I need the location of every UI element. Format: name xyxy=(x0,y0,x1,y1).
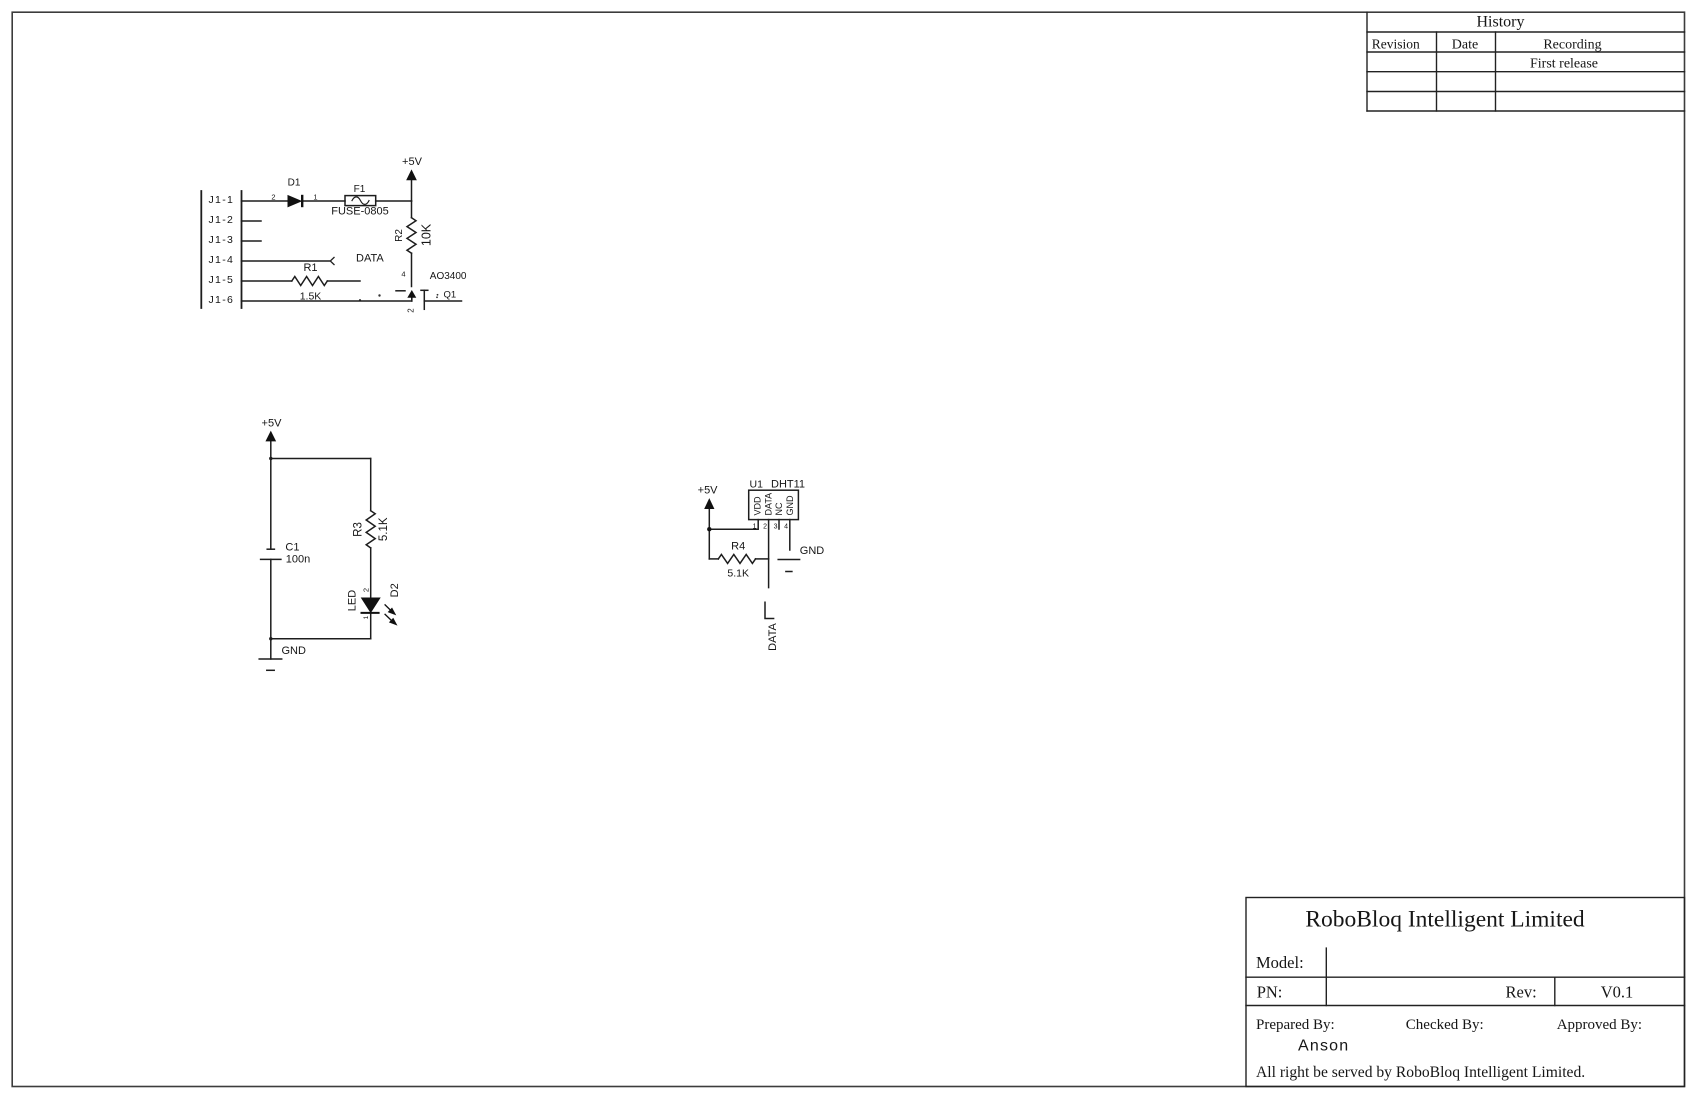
svg-text:J1-6: J1-6 xyxy=(209,294,235,306)
resistor R4 body xyxy=(718,554,755,563)
wire pin4 GND xyxy=(789,520,791,550)
wire J1-2 stub xyxy=(242,220,262,222)
title block outline xyxy=(1246,898,1685,1087)
wire J1-5 to R1 xyxy=(242,280,292,282)
svg-text:5.1K: 5.1K xyxy=(378,517,390,541)
wire J1-3 stub xyxy=(242,240,262,242)
wire LED to bottom rail xyxy=(370,613,372,639)
svg-text:F1: F1 xyxy=(354,184,366,195)
svg-text:10K: 10K xyxy=(420,223,434,246)
LED D2 triangle xyxy=(362,598,380,612)
ground bar (DHT11) xyxy=(778,559,799,561)
wire left rail to C1 xyxy=(270,459,272,550)
wire +5V stem xyxy=(411,180,413,202)
wire J1-6 to Q1 source xyxy=(242,297,412,301)
transistor Q1 source stem xyxy=(411,297,413,302)
svg-text:U1: U1 xyxy=(750,479,764,491)
svg-text:+5V: +5V xyxy=(698,485,719,497)
svg-text:D1: D1 xyxy=(288,178,301,189)
svg-text:4: 4 xyxy=(401,270,405,279)
svg-text:Revision: Revision xyxy=(1372,37,1420,52)
svg-text:+5V: +5V xyxy=(262,418,283,430)
designator marks before Q1 xyxy=(437,294,439,296)
transistor Q1 gate bar cap xyxy=(421,289,428,291)
svg-text:R4: R4 xyxy=(731,541,745,553)
svg-text:Model:: Model: xyxy=(1256,953,1304,972)
wire top rail xyxy=(271,458,371,460)
svg-text:2: 2 xyxy=(361,588,370,592)
transistor Q1 channel arrow xyxy=(408,291,416,298)
svg-text:DHT11: DHT11 xyxy=(771,479,805,491)
diode D1 triangle xyxy=(288,196,301,207)
svg-text:Prepared By:: Prepared By: xyxy=(1256,1017,1335,1033)
svg-text:Anson: Anson xyxy=(1298,1038,1349,1055)
svg-text:100n: 100n xyxy=(286,553,310,565)
wire C1 to bottom rail xyxy=(270,559,272,638)
power +5V arrow (DHT11) xyxy=(705,499,714,509)
fuse F1 element xyxy=(352,197,369,205)
svg-text:D2: D2 xyxy=(389,583,401,597)
port bracket DATA (DHT11) xyxy=(765,602,774,618)
power +5V arrow (J1 rail) xyxy=(407,170,416,180)
resistor R3 body xyxy=(366,511,375,548)
wire diode to fuse xyxy=(303,200,345,202)
svg-text:2: 2 xyxy=(407,308,416,313)
svg-text:1: 1 xyxy=(363,615,370,619)
svg-text:J1-4: J1-4 xyxy=(209,254,235,266)
wire R1 right xyxy=(327,280,360,282)
LED D2 light arrow 2 xyxy=(385,614,393,622)
svg-text:Recording: Recording xyxy=(1543,38,1601,53)
svg-text:V0.1: V0.1 xyxy=(1601,983,1634,1002)
wire R2 to Q1 drain xyxy=(411,253,413,286)
ground dash (DHT11) xyxy=(786,571,792,573)
svg-text:+5V: +5V xyxy=(402,156,423,168)
connector J1 left bar xyxy=(200,191,202,308)
svg-text:AO3400: AO3400 xyxy=(430,271,467,282)
svg-text:RoboBloq Intelligent Limited: RoboBloq Intelligent Limited xyxy=(1305,907,1585,933)
svg-text:Q1: Q1 xyxy=(444,290,457,301)
svg-text:1: 1 xyxy=(313,193,317,202)
component U1 box xyxy=(749,490,799,519)
wire J1-4 DATA xyxy=(242,260,330,262)
svg-text:GND: GND xyxy=(282,645,307,657)
svg-text:3: 3 xyxy=(774,524,778,531)
wire bottom rail xyxy=(271,638,371,640)
transistor Q1 gate dash xyxy=(396,290,405,292)
pin mark near Q1 gate xyxy=(378,294,380,296)
wire rail to R2 xyxy=(411,201,413,218)
svg-text:Date: Date xyxy=(1452,38,1478,53)
wire pin2 DATA down xyxy=(768,520,770,588)
resistor R1 body xyxy=(292,277,327,286)
svg-text:PN:: PN: xyxy=(1257,983,1283,1002)
title block divider model/pn column xyxy=(1325,948,1327,1005)
svg-text:First release: First release xyxy=(1530,57,1598,72)
svg-text:R1: R1 xyxy=(303,262,317,274)
wire +5V stem (DHT11) xyxy=(708,509,710,559)
svg-text:Approved By:: Approved By: xyxy=(1557,1017,1642,1033)
wire J1-1 to diode xyxy=(242,200,289,202)
svg-text:J1-5: J1-5 xyxy=(209,274,235,286)
svg-text:History: History xyxy=(1477,14,1525,31)
svg-text:Rev:: Rev: xyxy=(1506,983,1537,1002)
svg-text:Checked By:: Checked By: xyxy=(1406,1017,1484,1033)
junction dot top rail xyxy=(269,457,272,460)
wire rail to R4 xyxy=(709,558,718,560)
title block row line under PN xyxy=(1246,1005,1685,1007)
wire +5V stem (LED circuit) xyxy=(270,441,272,459)
resistor R2 body xyxy=(407,218,416,253)
power +5V arrow (LED circuit) xyxy=(266,432,275,442)
svg-text:J1-3: J1-3 xyxy=(209,234,235,246)
svg-text:DATA: DATA xyxy=(356,253,384,265)
title block divider rev column xyxy=(1554,977,1556,1005)
ground bar (LED circuit) xyxy=(259,658,282,660)
svg-text:J1-1: J1-1 xyxy=(209,194,235,206)
svg-text:5.1K: 5.1K xyxy=(727,568,749,580)
junction dot on J1-6 wire xyxy=(359,299,361,301)
history table frame xyxy=(1367,12,1685,111)
svg-text:DATA: DATA xyxy=(763,493,773,516)
svg-text:GND: GND xyxy=(785,495,795,516)
svg-text:1.5K: 1.5K xyxy=(300,291,322,303)
svg-text:FUSE-0805: FUSE-0805 xyxy=(331,206,388,218)
svg-text:DATA: DATA xyxy=(767,622,779,650)
wire R4 to DATA line xyxy=(756,558,769,560)
transistor Q1 gate bar xyxy=(423,290,425,309)
fuse F1 body xyxy=(345,196,376,206)
wire fuse to +5V rail xyxy=(376,200,412,202)
svg-text:VDD: VDD xyxy=(753,496,763,516)
wire to GND xyxy=(270,639,272,659)
wire Q1 gate xyxy=(424,300,461,302)
svg-text:R3: R3 xyxy=(353,522,365,537)
wire pin1 VDD to rail xyxy=(709,520,758,530)
connector J1 right bar xyxy=(241,191,243,308)
capacitor C1 bottom plate xyxy=(261,558,281,560)
junction dot bottom rail xyxy=(269,637,272,640)
junction dot on +5V rail (DHT11) xyxy=(707,527,711,531)
port arrow DATA (J1-4) xyxy=(330,257,334,265)
svg-text:R2: R2 xyxy=(394,229,405,242)
capacitor C1 top plate xyxy=(267,548,274,550)
svg-text:2: 2 xyxy=(271,193,275,202)
svg-text:LED: LED xyxy=(347,590,359,611)
svg-text:All right be served by RoboBlo: All right be served by RoboBloq Intellig… xyxy=(1256,1064,1585,1081)
ground dash (LED circuit) xyxy=(267,669,274,671)
wire top rail to R3 xyxy=(370,459,372,511)
LED D2 cathode bar xyxy=(361,612,380,614)
pin 3 stub NC xyxy=(778,520,780,529)
wire R3 to LED xyxy=(370,548,372,598)
LED D2 light arrow 1 xyxy=(385,604,397,624)
svg-text:GND: GND xyxy=(800,545,825,557)
diode D1 cathode bar xyxy=(301,195,303,207)
svg-text:NC: NC xyxy=(774,502,784,515)
svg-text:4: 4 xyxy=(784,524,788,531)
svg-text:C1: C1 xyxy=(285,541,299,553)
svg-text:1: 1 xyxy=(753,524,757,531)
svg-text:2: 2 xyxy=(763,524,767,531)
svg-text:J1-2: J1-2 xyxy=(209,214,235,226)
title block row line under Model xyxy=(1246,976,1685,978)
